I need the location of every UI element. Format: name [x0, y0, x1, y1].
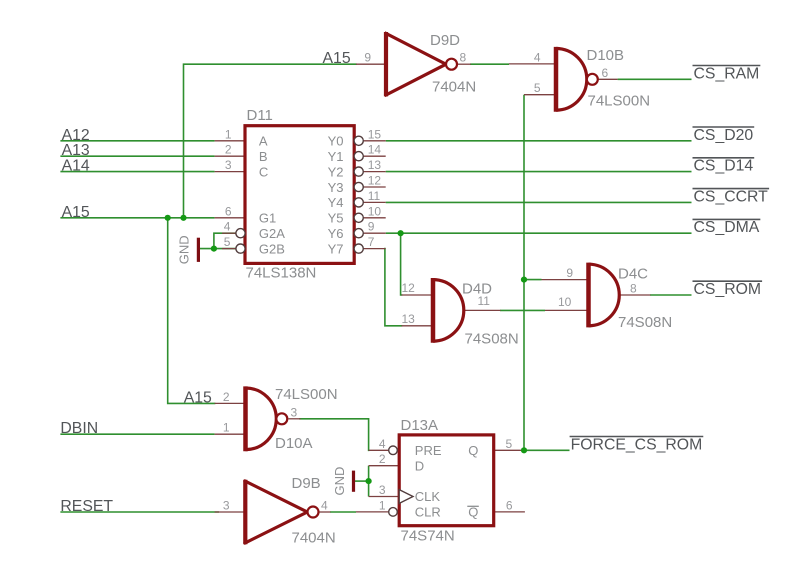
svg-text:D10B: D10B	[587, 47, 625, 64]
D11 input pin stubs 1,2,3,6	[215, 141, 245, 218]
svg-text:4: 4	[321, 498, 328, 512]
wire junction to D4C pin 9	[524, 279, 542, 281]
svg-text:Y5: Y5	[328, 211, 344, 226]
IC D13A 74S74N flip-flop body	[389, 435, 494, 526]
svg-text:FORCE_CS_ROM: FORCE_CS_ROM	[571, 436, 703, 453]
svg-text:10: 10	[558, 295, 572, 309]
svg-text:74S08N: 74S08N	[618, 314, 672, 331]
net label CS_RAM	[693, 65, 761, 82]
D11 pin names	[259, 134, 344, 257]
svg-text:3: 3	[225, 158, 232, 172]
svg-text:A15: A15	[323, 50, 351, 67]
svg-text:15: 15	[368, 127, 382, 141]
svg-text:2: 2	[379, 452, 386, 466]
svg-text:4: 4	[534, 50, 541, 64]
D11 name label	[247, 107, 273, 124]
svg-text:GND: GND	[177, 235, 192, 264]
D10A value label 74LS00N	[275, 386, 338, 403]
svg-text:1: 1	[379, 498, 386, 512]
wire GND1 to G2A G2B	[200, 233, 236, 248]
nand-gate D10B body	[556, 47, 598, 112]
D11 pin numbers	[224, 127, 382, 249]
D9B value label 7404N	[292, 530, 336, 547]
svg-text:CS_D20: CS_D20	[694, 127, 754, 144]
wire D4C output CS_ROM	[650, 294, 692, 296]
D4D pin 12 stub	[402, 294, 432, 296]
svg-text:6: 6	[506, 498, 513, 512]
svg-text:14: 14	[368, 143, 382, 157]
svg-text:74LS138N: 74LS138N	[246, 265, 317, 282]
svg-text:D9B: D9B	[292, 475, 321, 492]
D10B pin numbers	[534, 50, 609, 95]
D13A Q pin stub	[494, 449, 524, 451]
svg-text:D10A: D10A	[275, 435, 313, 452]
svg-text:7404N: 7404N	[432, 79, 476, 96]
svg-text:10: 10	[368, 204, 382, 218]
D11 value label 74LS138N	[246, 265, 317, 282]
wire D10B output CS_RAM	[618, 78, 692, 80]
svg-text:GND: GND	[332, 467, 347, 496]
and-gate D4C body	[589, 263, 620, 328]
net label FORCE_CS_ROM	[570, 436, 704, 453]
net label A15 at D9D	[323, 50, 351, 67]
svg-text:12: 12	[368, 174, 382, 188]
net label DBIN	[60, 420, 98, 437]
svg-text:6: 6	[225, 204, 232, 218]
svg-text:CLR: CLR	[415, 505, 441, 520]
wire D9D output to D10B pin 4	[470, 63, 509, 65]
svg-text:Y3: Y3	[328, 180, 344, 195]
junction D13A Q / FORCE_CS_ROM	[521, 447, 527, 453]
svg-text:RESET: RESET	[60, 498, 113, 515]
svg-text:CS_D14: CS_D14	[694, 158, 754, 175]
svg-text:3: 3	[223, 499, 230, 513]
svg-text:13: 13	[368, 158, 382, 172]
IC D11 74LS138N decoder body	[236, 126, 363, 264]
D4D name label	[462, 281, 492, 298]
svg-text:13: 13	[402, 312, 416, 326]
wire A15 horizontal	[60, 217, 214, 219]
wire D13A D-CLK vertical	[368, 466, 370, 497]
D11 output pin stubs Y0-Y7	[363, 141, 386, 249]
svg-text:C: C	[259, 164, 268, 179]
svg-text:9: 9	[364, 51, 371, 65]
D9D pin numbers	[364, 51, 466, 65]
junction A15 / D10A branch	[165, 215, 171, 221]
net label A15	[62, 204, 90, 221]
svg-text:8: 8	[630, 282, 637, 296]
svg-text:4: 4	[224, 220, 231, 234]
svg-text:G2B: G2B	[259, 241, 285, 256]
svg-text:D4C: D4C	[618, 266, 648, 283]
D13A CLK pin stub	[369, 496, 400, 498]
wire RESET net	[60, 511, 219, 513]
net label A13	[62, 142, 90, 159]
svg-text:1: 1	[225, 127, 232, 141]
net label CS_ROM	[693, 281, 763, 298]
D10A pin 2 stub	[215, 402, 244, 404]
net label A15 at D10A	[184, 389, 212, 406]
D13A D pin stub	[369, 465, 400, 467]
inverter D9B body	[245, 480, 318, 544]
inverter D9D body	[386, 32, 457, 96]
svg-text:74S08N: 74S08N	[465, 331, 519, 348]
net label CS_D14	[693, 158, 755, 175]
svg-text:74LS00N: 74LS00N	[275, 386, 338, 403]
wire A13 net	[60, 155, 214, 157]
wire D13A Q to FORCE_CS_ROM	[524, 449, 570, 451]
D13A name label	[401, 417, 439, 434]
svg-text:A14: A14	[62, 158, 90, 175]
D13A PRE pin stub	[369, 449, 389, 451]
D9B pin numbers	[223, 498, 328, 512]
svg-text:D: D	[415, 458, 424, 473]
D10A output pin stub	[288, 418, 300, 420]
svg-text:9: 9	[368, 220, 375, 234]
svg-text:A: A	[259, 134, 268, 149]
svg-text:3: 3	[379, 483, 386, 497]
svg-text:Y4: Y4	[328, 195, 344, 210]
svg-text:1: 1	[223, 421, 230, 435]
and-gate D4D body	[433, 278, 464, 343]
wire D9B output to D13A CLR	[330, 511, 356, 513]
svg-text:B: B	[259, 149, 268, 164]
D9D input pin stub	[356, 63, 386, 65]
D4C pin 10 stub	[545, 309, 587, 311]
svg-text:9: 9	[566, 266, 573, 280]
svg-text:D13A: D13A	[401, 417, 439, 434]
D10A name label	[275, 435, 313, 452]
net label CS_D20	[693, 127, 755, 144]
wire GND1 junction to G2B	[214, 248, 236, 250]
svg-text:7: 7	[368, 235, 375, 249]
wire Y6 branch down to D4D pin 12	[400, 233, 403, 295]
wire A15 branch down to D10A	[168, 218, 215, 404]
D4C pin 9 stub	[542, 279, 588, 281]
D10B pin 5 stub	[524, 94, 555, 96]
junction GND2 / D13A D-CLK	[366, 478, 372, 484]
svg-text:CS_DMA: CS_DMA	[694, 219, 760, 236]
svg-text:8: 8	[460, 51, 467, 65]
svg-text:3: 3	[291, 405, 298, 419]
svg-text:A15: A15	[62, 204, 90, 221]
net label A14	[62, 158, 90, 175]
wire CS_D20 net	[386, 140, 692, 142]
svg-text:CS_CCRT: CS_CCRT	[694, 188, 769, 205]
junction D4C pin 9	[521, 277, 527, 283]
wire D4D output to D4C pin 10	[500, 309, 545, 311]
svg-text:D9D: D9D	[430, 32, 460, 49]
D4D output pin stub	[465, 309, 501, 311]
svg-text:Y1: Y1	[328, 149, 344, 164]
D9D name label	[430, 32, 460, 49]
svg-text:DBIN: DBIN	[60, 420, 98, 437]
svg-text:CS_RAM: CS_RAM	[694, 65, 760, 82]
svg-text:CS_ROM: CS_ROM	[694, 281, 762, 298]
svg-text:Y6: Y6	[328, 226, 344, 241]
D10B output pin stub	[598, 78, 618, 80]
svg-text:74LS00N: 74LS00N	[588, 93, 651, 110]
D13A CLR pin stub	[356, 511, 389, 513]
D4D value label 74S08N	[465, 331, 519, 348]
svg-text:G1: G1	[259, 211, 276, 226]
D9D value label 7404N	[432, 79, 476, 96]
D4C pin numbers	[558, 266, 637, 309]
D10B value label 74LS00N	[588, 93, 651, 110]
svg-text:5: 5	[224, 235, 231, 249]
wire A15 branch up to D9D	[184, 64, 357, 218]
wire DBIN net	[60, 433, 214, 435]
junction Y6 / D4D branch	[398, 230, 404, 236]
D10A pin numbers	[223, 390, 298, 435]
svg-text:5: 5	[534, 81, 541, 95]
svg-text:Y2: Y2	[328, 164, 344, 179]
svg-text:4: 4	[379, 437, 386, 451]
D13A pin names	[415, 443, 479, 520]
D10B name label	[587, 47, 625, 64]
net label CS_CCRT	[693, 188, 770, 205]
svg-text:G2A: G2A	[259, 226, 285, 241]
wire CS_D14 net	[386, 171, 692, 173]
D9D output pin stub	[457, 63, 471, 65]
D13A value label 74S74N	[401, 528, 455, 545]
D4D pin numbers	[402, 281, 491, 326]
svg-text:2: 2	[223, 390, 230, 404]
svg-text:74S74N: 74S74N	[401, 528, 455, 545]
svg-text:11: 11	[478, 294, 491, 308]
wire CS_DMA net	[386, 232, 692, 234]
junction A15 / D9D branch	[180, 215, 186, 221]
wire A12 net	[60, 140, 214, 142]
net label A12	[62, 127, 90, 144]
D10A pin 1 stub	[215, 433, 244, 435]
svg-text:2: 2	[225, 143, 232, 157]
D4C name label	[618, 266, 648, 283]
svg-text:D11: D11	[247, 107, 273, 124]
D13A pin numbers	[379, 437, 513, 513]
D9B input pin stub	[215, 511, 244, 513]
svg-text:Y7: Y7	[328, 241, 344, 256]
svg-text:A15: A15	[184, 389, 212, 406]
D4C value label 74S08N	[618, 314, 672, 331]
wire D10A output to D13A PRE	[300, 419, 369, 451]
D10B pin 4 stub	[509, 63, 555, 65]
nand-gate D10A body	[246, 386, 288, 451]
wire A14 net	[60, 171, 214, 173]
D9B output pin stub	[319, 511, 331, 513]
D4D pin 13 stub	[402, 325, 432, 327]
wire Y7 to D4D pin 13	[385, 249, 402, 326]
D11 G2A pin stub	[222, 232, 236, 234]
svg-text:11: 11	[368, 189, 381, 203]
svg-text:Q: Q	[468, 443, 478, 458]
D4C output pin stub	[619, 294, 650, 296]
net label RESET	[60, 498, 113, 515]
net label CS_DMA	[693, 219, 761, 236]
wire GND2 to D and CLK pins	[355, 480, 369, 482]
svg-text:CLK: CLK	[415, 489, 441, 504]
ground GND2 symbol	[332, 467, 354, 496]
svg-text:5: 5	[506, 437, 513, 451]
svg-text:7404N: 7404N	[292, 530, 336, 547]
svg-text:Y0: Y0	[328, 134, 344, 149]
D9B name label	[292, 475, 321, 492]
D13A Qbar pin stub	[494, 511, 525, 513]
junction GND1 / G2A-G2B	[211, 246, 217, 252]
ground GND1 symbol	[177, 235, 199, 264]
svg-text:6: 6	[602, 66, 609, 80]
D11 G2B pin stub	[222, 248, 236, 250]
wire CS_CCRT net	[386, 201, 692, 203]
svg-text:12: 12	[402, 281, 416, 295]
svg-text:PRE: PRE	[415, 443, 442, 458]
wire vertical bus D10B.5 / D4C.9 / D13A.Q	[523, 95, 525, 451]
